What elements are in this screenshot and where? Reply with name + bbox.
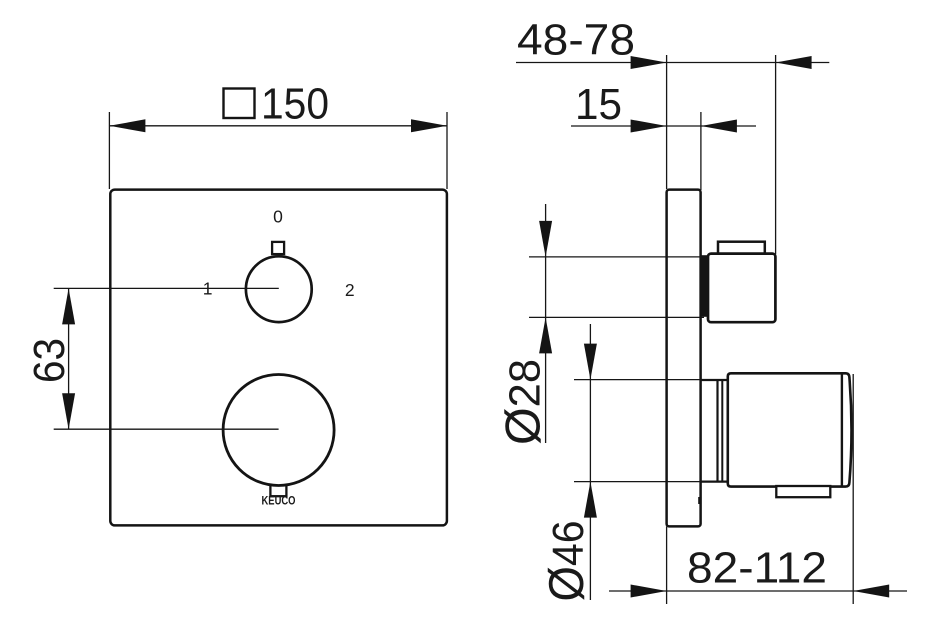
centerline large knob [54,428,279,430]
dim 15 text [575,80,622,129]
svg-text:15: 15 [575,80,622,129]
dim 63 arrow bottom [62,393,75,429]
dim diam28 extension bottom [529,316,704,318]
dim 150 line [109,125,447,127]
dim 150 text [261,80,329,129]
svg-text:48-78: 48-78 [517,16,635,65]
dim diam28 text [497,359,551,445]
dim 63 line [68,288,70,429]
large knob front tab [270,478,286,496]
dim 63 arrow top [62,288,75,324]
plate nub [698,497,701,504]
wall plate side view [667,190,701,527]
label 0 [273,206,283,226]
dim diam28 extension top [529,256,701,258]
KEUCO logo [262,496,296,508]
dim 150 extension line right [446,112,448,189]
centerline small knob [54,287,279,289]
dim 150 extension line left [108,112,110,189]
svg-text:Ø28: Ø28 [497,359,551,445]
dim diam28 line [545,204,547,443]
dim diam46 arrow top [584,344,597,380]
dim 48-78 text [517,16,635,65]
dim 48-78 arrow right [776,56,812,69]
label 2 [345,280,355,300]
svg-text:2: 2 [345,280,355,300]
dim diam46 line [589,324,591,600]
large knob side sleeve line 2 [721,380,723,482]
dim 15 extension right [700,112,702,190]
dim 150 square symbol [224,89,255,119]
large knob side neck bottom edge [701,481,728,483]
svg-text:150: 150 [261,80,329,129]
dim 15 arrow right [701,120,737,133]
large knob side neck top edge [701,379,728,381]
small knob side body [708,254,775,323]
dim 82-112 extension left [666,527,668,605]
dim 150 arrow left [109,119,145,132]
dim 48-78 extension right [775,55,777,254]
dim diam28 arrow bottom [539,317,552,353]
small knob side ridge [718,242,765,255]
dim 48-78 extension left [666,55,668,189]
large knob side face line [841,375,843,486]
dim 15 arrow left [631,120,667,133]
dim diam46 arrow bottom [584,482,597,518]
small knob front circle [246,256,312,322]
large knob front circle [223,375,334,486]
dim 82-112 text [687,544,827,593]
small knob front tab [272,242,284,254]
dim 82-112 line [609,590,907,592]
dim diam46 text [540,521,594,602]
dim 48-78 line [516,62,829,64]
large knob side body [728,373,852,486]
dim 63 text [25,338,74,383]
small knob side neck [701,255,708,317]
svg-text:63: 63 [25,338,74,383]
large knob side bottom tab [776,486,830,497]
dim diam46 extension top [574,379,701,381]
svg-text:0: 0 [273,206,283,226]
large knob side sleeve line 1 [716,380,718,482]
dim 82-112 arrow right [853,585,889,598]
svg-text:82-112: 82-112 [687,544,827,593]
dim 82-112 extension right [852,374,854,604]
dim 48-78 arrow left [631,56,667,69]
dim diam28 arrow top [539,221,552,257]
svg-text:KEUCO: KEUCO [262,496,296,508]
dim 150 arrow right [411,119,447,132]
front plate outline [110,190,447,526]
svg-text:1: 1 [203,279,213,299]
dim diam46 extension bottom [574,481,701,483]
dim 82-112 arrow left [631,585,667,598]
dim 15 line [571,125,756,127]
label 1 [203,279,213,299]
svg-text:Ø46: Ø46 [540,521,594,602]
